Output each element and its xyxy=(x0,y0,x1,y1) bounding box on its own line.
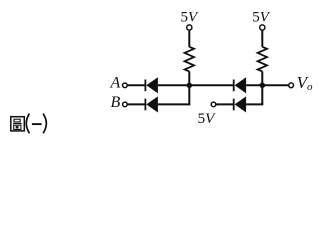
node N1 junction dot xyxy=(187,83,193,89)
resistor R1 xyxy=(185,47,194,72)
diode D1 (input A), cathode bar xyxy=(145,77,158,93)
svg-text:5V: 5V xyxy=(252,10,271,26)
wire: top row D1 to D3 (through node N1) xyxy=(158,84,233,86)
wire: right vertical riser to node N2 xyxy=(261,85,263,104)
wire: R1 bottom lead to node N1 xyxy=(188,71,190,85)
svg-text:Vo: Vo xyxy=(297,73,313,93)
5V supply terminal above R1 xyxy=(187,25,192,30)
diode D2 (input B), cathode bar xyxy=(145,96,158,112)
diode D4 (second stage, bottom from 5V) xyxy=(234,96,246,112)
wire: R2 top lead from 5V terminal xyxy=(261,30,263,47)
node N2 junction dot xyxy=(260,83,266,89)
caption glyph 圖 (drawn) xyxy=(11,117,24,131)
5V input terminal (bottom) xyxy=(211,102,216,107)
wire: D4 to right vertical riser xyxy=(246,103,263,105)
caption "(" xyxy=(26,114,29,134)
wire: 5V terminal to diode D4 xyxy=(216,103,233,105)
wire: input A to diode D1 xyxy=(127,84,144,86)
resistor R2 xyxy=(258,47,267,72)
wire: R2 bottom lead to node N2 xyxy=(261,71,263,85)
output terminal Vo xyxy=(289,83,294,88)
caption 一 (drawn) xyxy=(32,123,42,125)
5V supply terminal above R2 xyxy=(260,25,265,30)
diode D3 (second stage, top) xyxy=(234,77,246,93)
svg-text:A: A xyxy=(110,75,121,92)
wire: D3 to output terminal (through node N2) xyxy=(246,84,289,86)
svg-text:5V: 5V xyxy=(181,10,200,26)
wire: D2 to vertical riser xyxy=(158,103,190,105)
wire: R1 top lead from 5V terminal xyxy=(188,30,190,47)
input terminal A xyxy=(123,83,128,88)
caption ")" xyxy=(43,114,46,134)
wire: input B to diode D2 xyxy=(127,103,144,105)
svg-text:5V: 5V xyxy=(198,111,217,127)
svg-text:B: B xyxy=(111,94,121,111)
wire: left vertical riser B-row to node N1 xyxy=(188,85,190,104)
input terminal B xyxy=(123,102,128,107)
